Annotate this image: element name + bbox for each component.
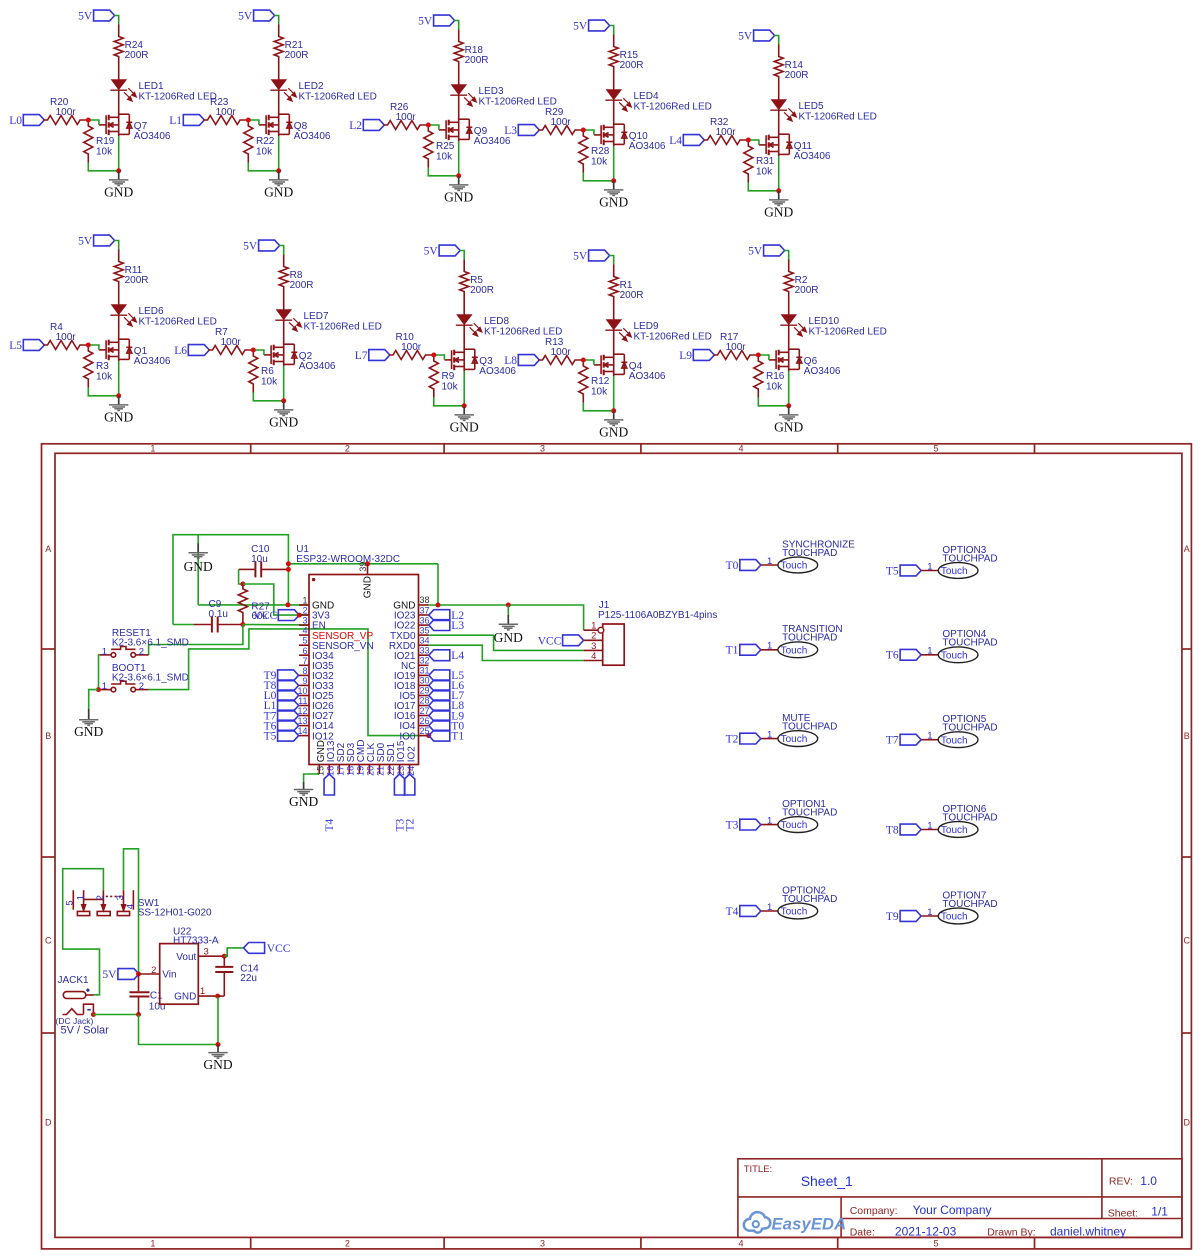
svg-text:35: 35 (420, 625, 430, 635)
svg-text:1.0: 1.0 (1140, 1174, 1157, 1188)
svg-text:5V: 5V (418, 16, 433, 28)
svg-text:AO3406: AO3406 (629, 371, 666, 382)
ground GND (269, 401, 298, 430)
pin 17 SD2 of U1 (336, 742, 347, 775)
pin 2 of J1 (584, 631, 603, 642)
wire gate node (248, 120, 259, 125)
svg-text:GND: GND (494, 630, 523, 645)
svg-text:5V: 5V (78, 236, 93, 248)
wire 5V flag to R2 (785, 251, 789, 261)
svg-text:Vout: Vout (176, 952, 196, 963)
svg-text:200R: 200R (795, 285, 819, 296)
wire Vout to VCC flag (224, 948, 243, 956)
svg-text:1: 1 (200, 986, 205, 997)
regulator U22 HT7333-A body (160, 944, 199, 1005)
resistor R26 100r (383, 121, 426, 130)
svg-text:3: 3 (540, 1239, 545, 1249)
wire LED cathode to Q7 drain (118, 90, 120, 114)
svg-text:1: 1 (927, 731, 932, 742)
transistor Q10 AO3406 (594, 123, 627, 146)
svg-text:5V: 5V (243, 241, 258, 253)
pin 24 IO2 of U1 (406, 746, 417, 776)
svg-text:AO3406: AO3406 (479, 366, 516, 377)
svg-text:SS-12H01-G020: SS-12H01-G020 (138, 907, 212, 918)
net flag L0 at U1 (264, 690, 299, 702)
svg-text:GND: GND (289, 794, 318, 809)
svg-text:T2: T2 (404, 818, 416, 831)
ground GND (104, 171, 133, 200)
wire gate node (583, 130, 594, 135)
svg-text:TOUCHPAD: TOUCHPAD (782, 633, 837, 644)
net flag VCC at J1 pin 2 (538, 635, 584, 648)
wire RESET1 pin 1 to BOOT1 pin 1 (98, 655, 101, 690)
ground GND (power) (203, 1045, 232, 1073)
label R28 10k (591, 146, 610, 168)
resistor R1 200R (609, 265, 618, 320)
svg-text:Touch: Touch (781, 645, 808, 656)
junction gate node (581, 358, 586, 363)
svg-text:22: 22 (386, 766, 396, 776)
pin 7 IO35 of U1 (299, 656, 334, 672)
label R5 200R (470, 275, 494, 296)
ground GND (599, 411, 628, 440)
svg-text:TOUCHPAD: TOUCHPAD (942, 899, 997, 910)
net flag L9 (679, 350, 714, 363)
svg-text:LED9: LED9 (634, 321, 659, 332)
net flag 5V (L1 driver) (238, 10, 274, 23)
svg-text:R16: R16 (766, 371, 785, 382)
wire gate node (88, 120, 99, 125)
svg-text:LED10: LED10 (809, 316, 840, 327)
pin 27 IO16 of U1 (394, 706, 430, 722)
svg-text:REV:: REV: (1109, 1176, 1133, 1188)
junction gate node (246, 118, 251, 123)
wire RXD0 U1 pin 34 to J1 pin 4 (429, 645, 584, 660)
transistor Q3 AO3406 (445, 348, 478, 371)
svg-text:KT-1206Red LED: KT-1206Red LED (139, 92, 217, 103)
pushbutton BOOT1 K2-3.6x6.1_SMD (99, 681, 148, 692)
label JACK1 (DC Jack) 5V / Solar (56, 975, 110, 1037)
label R21 200R (285, 40, 309, 61)
pin 6 IO34 of U1 (299, 646, 334, 662)
label R7 100r (215, 327, 241, 348)
svg-text:10k: 10k (766, 382, 783, 393)
svg-text:AO3406: AO3406 (294, 131, 331, 142)
svg-text:4: 4 (591, 651, 596, 662)
svg-text:1: 1 (927, 561, 932, 572)
svg-text:1: 1 (75, 895, 86, 900)
svg-text:0.1u: 0.1u (209, 609, 228, 620)
wire GND to U1 pin 1 (198, 604, 309, 606)
label Q3 AO3406 (479, 356, 516, 377)
wire LED cathode to Q11 drain (778, 110, 780, 134)
label C9 0.1u (209, 599, 228, 620)
pin 28 IO17 of U1 (394, 696, 430, 712)
pin 1 GND of U1 (299, 596, 334, 612)
resistor R5 200R (460, 260, 469, 315)
ground GND (599, 181, 628, 210)
svg-text:1: 1 (767, 641, 772, 652)
svg-text:L2: L2 (349, 120, 362, 132)
svg-text:2: 2 (139, 646, 144, 657)
svg-text:10k: 10k (96, 372, 113, 383)
wire Q10 source to ground node (613, 146, 615, 181)
wire R28 to source node (583, 172, 613, 180)
net flag L3 (504, 125, 539, 138)
svg-text:R12: R12 (591, 376, 610, 387)
label C1 10u (149, 990, 166, 1012)
wire R31 to source node (748, 182, 778, 190)
wire EN node to U1 pin 3 (243, 624, 309, 626)
wire JACK1 - to GND rail (93, 1014, 138, 1016)
resistor R20 100r (43, 116, 86, 125)
net flag L1 at U1 (264, 700, 299, 712)
wire U1 pin 38 to J1 pin 1 (429, 605, 584, 630)
svg-text:1/1: 1/1 (1151, 1204, 1168, 1218)
label R10 100r (396, 332, 422, 353)
label LED7 KT-1206Red LED (304, 311, 382, 333)
svg-text:L6: L6 (174, 345, 187, 357)
wire gate node (428, 125, 439, 130)
wire TXD0 U1 pin 35 to J1 pin 3 (429, 635, 584, 650)
net flag L6 (174, 345, 209, 358)
ground GND (buttons) (74, 709, 103, 739)
svg-text:19: 19 (356, 766, 366, 776)
label Q2 AO3406 (299, 351, 336, 372)
ground GND (top-left) (184, 543, 213, 574)
pin 36 IO22 of U1 (394, 615, 430, 631)
label R6 10k (261, 366, 278, 388)
svg-text:R19: R19 (96, 136, 115, 147)
svg-text:HT7333-A: HT7333-A (173, 935, 219, 946)
label R8 200R (290, 270, 314, 291)
wire 5V flag to R1 (610, 256, 614, 266)
svg-text:Sheet_1: Sheet_1 (801, 1173, 853, 1189)
svg-text:TOUCHPAD: TOUCHPAD (942, 812, 997, 823)
net flag L3 at U1 (429, 620, 465, 632)
svg-text:TOUCHPAD: TOUCHPAD (782, 722, 837, 733)
touchpad T9 OPTION7 (886, 890, 998, 923)
svg-text:T9: T9 (886, 911, 899, 923)
svg-text:1: 1 (102, 646, 107, 657)
transistor Q11 AO3406 (759, 133, 792, 156)
svg-text:18: 18 (346, 766, 356, 776)
pin 29 IO5 of U1 (399, 686, 429, 702)
svg-text:Vin: Vin (162, 970, 176, 981)
svg-text:LED5: LED5 (799, 101, 824, 112)
frame column numbers (150, 444, 938, 1249)
svg-text:200R: 200R (125, 275, 149, 286)
svg-text:12: 12 (297, 706, 307, 716)
pin 33 IO21 of U1 (394, 645, 430, 661)
svg-text:T3: T3 (726, 819, 739, 831)
touchpad T2 MUTE (726, 713, 838, 746)
label Q8 AO3406 (294, 121, 331, 142)
wire GND top run to pin 39 (288, 563, 438, 565)
junction GND rail (216, 1042, 221, 1047)
label LED5 KT-1206Red LED (799, 101, 877, 123)
label R29 100r (545, 107, 571, 128)
svg-text:TOUCHPAD: TOUCHPAD (942, 553, 997, 564)
svg-text:GND: GND (264, 184, 293, 199)
svg-text:4: 4 (738, 444, 743, 454)
svg-text:200R: 200R (620, 290, 644, 301)
svg-text:200R: 200R (125, 50, 149, 61)
svg-text:10k: 10k (591, 387, 608, 398)
svg-text:LED1: LED1 (139, 81, 164, 92)
svg-text:7: 7 (302, 656, 307, 666)
pin 26 IO4 of U1 (399, 716, 429, 732)
svg-text:Touch: Touch (941, 912, 968, 923)
junction GND top at rect (286, 561, 291, 566)
svg-text:LED7: LED7 (304, 311, 329, 322)
junction gate node (86, 118, 91, 123)
svg-text:10: 10 (297, 686, 307, 696)
label Q4 AO3406 (629, 361, 666, 382)
svg-text:R3: R3 (96, 361, 109, 372)
label Q1 AO3406 (134, 346, 171, 367)
net flag L8 (504, 355, 539, 368)
wire LED cathode to Q4 drain (613, 330, 615, 354)
pin 21 SD0 of U1 (376, 742, 387, 775)
net flag T9 at U1 (264, 670, 299, 682)
svg-text:TITLE:: TITLE: (744, 1164, 773, 1175)
svg-text:KT-1206Red LED: KT-1206Red LED (799, 112, 877, 123)
wire gate node (434, 355, 445, 360)
svg-text:37: 37 (420, 605, 430, 615)
svg-text:AO3406: AO3406 (804, 366, 841, 377)
svg-text:L7: L7 (355, 350, 368, 362)
ground GND (444, 176, 473, 205)
junction at U1 pin 39 (365, 561, 370, 566)
resistor R21 200R (274, 25, 283, 80)
label R1 200R (620, 280, 644, 301)
svg-text:Your Company: Your Company (913, 1203, 992, 1217)
wire Q4 source to ground node (613, 376, 615, 411)
junction gate node (426, 123, 431, 128)
label R2 200R (795, 275, 819, 296)
wire gate node (253, 350, 264, 355)
svg-text:200R: 200R (285, 50, 309, 61)
svg-text:LED3: LED3 (479, 86, 504, 97)
net flag L2 (349, 120, 384, 133)
svg-text:R9: R9 (442, 371, 455, 382)
touchpad T5 OPTION3 (886, 545, 998, 578)
svg-text:13: 13 (297, 716, 307, 726)
svg-text:AO3406: AO3406 (474, 136, 511, 147)
pushbutton RESET1 K2-3.6x6.1_SMD (99, 647, 148, 658)
wire GND net rectangle (173, 535, 288, 625)
pin 12 IO27 of U1 (297, 706, 334, 722)
svg-text:Sheet:: Sheet: (1108, 1207, 1138, 1219)
pin 20 CLK of U1 (366, 743, 377, 776)
resistor R11 200R (114, 250, 123, 305)
label Q9 AO3406 (474, 126, 511, 147)
svg-text:R22: R22 (256, 136, 275, 147)
junction GND symbol tap (506, 603, 511, 608)
resistor R24 200R (114, 25, 123, 80)
svg-text:K2-3.6×6.1_SMD: K2-3.6×6.1_SMD (112, 672, 189, 683)
svg-text:6: 6 (302, 646, 307, 656)
resistor R14 200R (774, 45, 783, 100)
svg-text:5V: 5V (102, 969, 117, 981)
svg-text:Touch: Touch (941, 825, 968, 836)
svg-text:5V: 5V (424, 246, 439, 258)
LED LED3 (450, 85, 476, 106)
junction ground node (116, 393, 121, 398)
label U22 HT7333-A (173, 926, 219, 946)
svg-text:A: A (45, 544, 51, 554)
pin 11 IO26 of U1 (298, 696, 334, 712)
title block (738, 1159, 1182, 1238)
svg-text:200R: 200R (465, 55, 489, 66)
ground GND (104, 396, 133, 425)
wire Q2 source to ground node (283, 366, 285, 401)
svg-text:1: 1 (302, 596, 307, 606)
wire LED cathode to Q1 drain (118, 315, 120, 339)
svg-text:2021-12-03: 2021-12-03 (895, 1225, 957, 1239)
resistor R29 100r (538, 126, 581, 135)
sheet border frame (42, 444, 1192, 1249)
wire LED cathode to Q6 drain (788, 325, 790, 349)
net flag 5V (L6 driver) (243, 240, 279, 253)
junction ground node (611, 408, 616, 413)
svg-text:R31: R31 (756, 156, 775, 167)
touchpad T6 OPTION4 (886, 629, 998, 662)
EasyEDA logo (744, 1212, 846, 1234)
svg-text:39: 39 (358, 562, 368, 572)
wire gate node (748, 140, 759, 145)
svg-text:100r: 100r (401, 342, 422, 353)
svg-text:100r: 100r (551, 117, 572, 128)
junction GND rect / pin1 wire (285, 602, 290, 607)
svg-text:3: 3 (302, 616, 307, 626)
svg-text:JACK1: JACK1 (58, 975, 90, 986)
svg-text:2: 2 (345, 444, 350, 454)
svg-text:VCC: VCC (254, 610, 278, 622)
svg-text:D: D (45, 1117, 52, 1127)
svg-text:10k: 10k (436, 152, 453, 163)
svg-text:100r: 100r (221, 337, 242, 348)
resistor R8 200R (279, 255, 288, 310)
svg-text:100r: 100r (216, 107, 237, 118)
net flag L7 (355, 350, 390, 363)
transistor Q1 AO3406 (99, 338, 132, 361)
label J1 P125-1106A0BZYB1-4pins (598, 600, 717, 621)
pin 4 SENSOR_VP of U1 (299, 626, 373, 642)
resistor R16 10k (754, 357, 763, 397)
svg-text:100r: 100r (726, 342, 747, 353)
svg-text:10k: 10k (256, 147, 273, 158)
svg-text:LED8: LED8 (484, 316, 509, 327)
resistor R4 100r (43, 341, 86, 350)
svg-text:31: 31 (420, 666, 430, 676)
wire LED cathode to Q3 drain (463, 325, 465, 349)
svg-text:L0: L0 (9, 115, 22, 127)
svg-text:GND: GND (184, 559, 213, 574)
svg-text:5V / Solar: 5V / Solar (61, 1025, 110, 1037)
net flag L8 at U1 (429, 700, 465, 712)
wire U22 GND to rail (217, 996, 219, 1044)
LED LED2 (270, 80, 296, 101)
touchpad T8 OPTION6 (886, 804, 998, 837)
transistor Q9 AO3406 (439, 118, 472, 141)
svg-text:Touch: Touch (941, 735, 968, 746)
svg-text:Touch: Touch (781, 820, 808, 831)
pin 35 TXD0 of U1 (390, 625, 430, 641)
LED LED10 (780, 315, 806, 336)
junction C1 bottom (136, 1012, 141, 1017)
pin 23 IO15 of U1 (396, 740, 407, 776)
svg-text:1: 1 (150, 1239, 155, 1249)
label Q10 AO3406 (629, 131, 666, 152)
svg-text:5V: 5V (573, 21, 588, 33)
svg-text:TOUCHPAD: TOUCHPAD (782, 894, 837, 905)
svg-text:20: 20 (366, 766, 376, 776)
wire GND branch to symbol (197, 535, 199, 605)
svg-text:TOUCHPAD: TOUCHPAD (782, 548, 837, 559)
svg-text:A: A (1184, 544, 1190, 554)
wire R19 to source node (88, 162, 118, 170)
wire LED cathode to Q2 drain (283, 320, 285, 344)
svg-text:200R: 200R (290, 280, 314, 291)
svg-text:AO3406: AO3406 (629, 141, 666, 152)
wire R12 to source node (583, 402, 613, 410)
LED LED8 (456, 315, 482, 336)
svg-text:C: C (1183, 936, 1190, 946)
label C14 22u (240, 963, 259, 984)
svg-text:daniel.whitney: daniel.whitney (1050, 1225, 1126, 1239)
junction 5V node (136, 972, 141, 977)
touchpad T3 OPTION1 (726, 799, 838, 832)
svg-text:AO3406: AO3406 (134, 356, 171, 367)
svg-text:17: 17 (336, 766, 346, 776)
svg-text:GND: GND (174, 992, 196, 1003)
wire 5V flag to R11 (115, 241, 119, 251)
svg-text:2: 2 (345, 1239, 350, 1249)
junction U22 GND pin (215, 994, 220, 999)
pin 1 GND of U22 (174, 986, 218, 1003)
svg-text:R6: R6 (261, 366, 274, 377)
net flag L4 at U1 (429, 650, 465, 662)
svg-text:T4: T4 (726, 906, 739, 918)
svg-text:R28: R28 (591, 146, 610, 157)
pin 16 IO13 of U1 (325, 740, 336, 776)
net flag L0 (9, 115, 44, 128)
ground GND (774, 406, 803, 435)
svg-text:5V: 5V (573, 251, 588, 263)
wire GND down to pin 38 run (437, 564, 439, 605)
svg-text:25: 25 (420, 726, 430, 736)
label C10 10u (251, 544, 270, 565)
resistor R17 100r (713, 351, 756, 360)
label R12 10k (591, 376, 610, 398)
net flag VCC at U1 pin 2 (254, 610, 300, 623)
svg-text:TOUCHPAD: TOUCHPAD (942, 638, 997, 649)
svg-text:1: 1 (927, 907, 932, 918)
label LED4 KT-1206Red LED (634, 91, 712, 113)
resistor R9 10k (429, 357, 438, 397)
label Q11 AO3406 (794, 141, 831, 162)
svg-text:Touch: Touch (781, 561, 808, 572)
label Q6 AO3406 (804, 356, 841, 377)
label LED6 KT-1206Red LED (139, 306, 217, 328)
svg-text:GND: GND (362, 576, 373, 598)
pin 32 NC of U1 (401, 656, 429, 672)
junction C10 right lead (286, 567, 291, 572)
wire R22 to source node (248, 162, 278, 170)
resistor R28 10k (579, 132, 588, 172)
